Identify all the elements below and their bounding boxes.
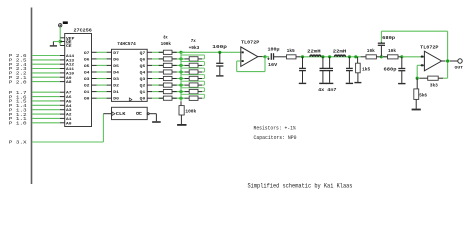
svg-text:680p: 680p — [384, 66, 397, 72]
svg-text:D7: D7 — [113, 52, 119, 56]
svg-text:CLK: CLK — [116, 113, 126, 117]
svg-text:A1: A1 — [66, 118, 72, 122]
svg-text:Capacitors: NP0: Capacitors: NP0 — [254, 135, 297, 141]
svg-text:A5: A5 — [66, 100, 72, 104]
svg-text:O0: O0 — [84, 98, 90, 102]
svg-text:5k6: 5k6 — [419, 93, 427, 99]
svg-text:Q4: Q4 — [140, 72, 146, 76]
svg-text:Q2: Q2 — [140, 85, 146, 89]
svg-text:Simplified schematic by Kai Kl: Simplified schematic by Kai Klaas — [248, 182, 353, 189]
svg-text:TL072P: TL072P — [241, 39, 260, 45]
svg-text:4x 4n7: 4x 4n7 — [318, 87, 337, 93]
svg-text:D1: D1 — [113, 91, 119, 95]
svg-text:TL072P: TL072P — [420, 44, 439, 50]
svg-text:O4: O4 — [84, 72, 90, 76]
svg-text:27C256: 27C256 — [74, 28, 93, 34]
svg-text:O6: O6 — [84, 58, 90, 62]
svg-text:100k: 100k — [161, 41, 172, 47]
svg-text:100p: 100p — [212, 44, 227, 50]
svg-text:74HC574: 74HC574 — [117, 41, 136, 47]
svg-text:O7: O7 — [84, 52, 90, 56]
svg-text:A4: A4 — [66, 105, 72, 109]
svg-text:CE: CE — [66, 45, 72, 49]
svg-text:7x: 7x — [191, 38, 196, 44]
svg-text:OUT: OUT — [455, 67, 464, 71]
svg-text:O1: O1 — [84, 91, 90, 95]
svg-text:1k5: 1k5 — [362, 66, 370, 72]
svg-text:O5: O5 — [84, 65, 90, 69]
svg-text:22mH: 22mH — [333, 48, 347, 54]
svg-text:OC: OC — [136, 113, 142, 117]
svg-text:P 1.0: P 1.0 — [9, 121, 27, 127]
svg-text:Q6: Q6 — [140, 58, 146, 62]
svg-text:Q7: Q7 — [140, 52, 146, 56]
svg-text:A10: A10 — [66, 72, 75, 76]
svg-text:A3: A3 — [66, 109, 72, 113]
svg-text:D6: D6 — [113, 58, 119, 62]
svg-text:D4: D4 — [113, 72, 119, 76]
svg-text:D0: D0 — [113, 98, 119, 102]
svg-text:P 2.0: P 2.0 — [9, 79, 27, 85]
svg-text:22mH: 22mH — [307, 48, 321, 54]
svg-text:Resistors: +-1%: Resistors: +-1% — [254, 126, 297, 132]
svg-text:Q5: Q5 — [140, 65, 146, 69]
svg-text:1k5: 1k5 — [287, 48, 295, 54]
svg-text:O2: O2 — [84, 85, 90, 89]
svg-text:A7: A7 — [66, 92, 72, 96]
svg-text:100µ: 100µ — [268, 46, 280, 52]
svg-text:Q3: Q3 — [140, 78, 146, 82]
svg-text:10k: 10k — [388, 48, 396, 54]
svg-text:10k: 10k — [367, 48, 375, 54]
svg-text:16V: 16V — [268, 62, 277, 68]
svg-text:A11: A11 — [66, 68, 75, 72]
svg-text:8x: 8x — [163, 35, 167, 41]
svg-text:680p: 680p — [382, 35, 395, 41]
svg-text:100k: 100k — [185, 109, 196, 115]
svg-text:D3: D3 — [113, 78, 119, 82]
svg-text:P 3.X: P 3.X — [9, 140, 27, 146]
svg-text:Q1: Q1 — [140, 91, 146, 95]
svg-text:D2: D2 — [113, 85, 119, 89]
svg-text:3k3: 3k3 — [430, 83, 438, 89]
svg-text:O3: O3 — [84, 78, 90, 82]
svg-text:A0: A0 — [66, 122, 72, 126]
svg-text:A8: A8 — [66, 81, 72, 85]
svg-text:Q0: Q0 — [140, 98, 146, 102]
svg-text:A14: A14 — [66, 55, 75, 59]
svg-text:+9k3: +9k3 — [189, 45, 200, 51]
svg-text:D5: D5 — [113, 65, 119, 69]
